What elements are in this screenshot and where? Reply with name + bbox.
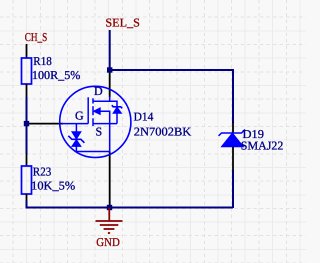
- resistor R23 body: [22, 166, 32, 194]
- svg-text:100R_5%: 100R_5%: [32, 68, 81, 82]
- svg-text:D: D: [94, 84, 103, 98]
- mosfet channel segment mid: [92, 106, 94, 115]
- svg-text:D14: D14: [134, 110, 154, 124]
- gate zener bar wings: [68, 136, 84, 143]
- wire D19 to bottom: [232, 170, 234, 208]
- resistor R18 pin bottom: [26, 84, 28, 98]
- gate zener stub top: [75, 124, 77, 132]
- diode D19 triangle: [221, 133, 243, 147]
- body diode anode lead: [116, 113, 118, 123]
- resistor R23 pin bottom: [26, 194, 28, 201]
- node A junction gate: [24, 121, 29, 126]
- mosfet bulk lead: [100, 111, 110, 123]
- diode D19 cathode bar: [219, 130, 245, 136]
- wire R23 bottom corner: [27, 201, 234, 208]
- svg-text:G: G: [75, 108, 84, 122]
- gate zener stub bottom: [76, 146, 109, 151]
- mosfet drain lead: [93, 96, 110, 101]
- diode D19 pin bottom: [232, 147, 234, 171]
- mosfet bulk arrow: [94, 108, 101, 115]
- gate zener triangle upper: [72, 132, 81, 139]
- mosfet source drop: [109, 124, 111, 152]
- node junction GND: [107, 205, 112, 210]
- svg-text:10K_5%: 10K_5%: [31, 179, 75, 193]
- svg-text:SEL_S: SEL_S: [105, 15, 139, 29]
- body diode triangle: [113, 107, 121, 113]
- body diode cathode bar: [112, 105, 122, 108]
- mosfet source lead: [93, 123, 117, 125]
- resistor R23 pin top: [26, 154, 28, 167]
- resistor R18 body: [22, 58, 32, 84]
- svg-text:GND: GND: [96, 235, 120, 249]
- svg-text:CH_S: CH_S: [25, 30, 48, 44]
- body diode cathode lead: [110, 101, 117, 107]
- mosfet channel segment top: [92, 98, 94, 103]
- mosfet channel segment bottom: [92, 118, 94, 126]
- svg-text:S: S: [96, 124, 103, 138]
- mosfet gate lead: [62, 123, 88, 125]
- gate zener triangle lower: [72, 140, 81, 147]
- svg-text:R18: R18: [33, 54, 52, 68]
- node junction SEL_S/drain: [107, 67, 112, 72]
- transistor Q D14 pin source: [109, 152, 111, 208]
- power port GND: [96, 208, 123, 234]
- transistor D14 body circle: [60, 86, 131, 157]
- mosfet gate bar: [87, 97, 89, 123]
- resistor R18 pin top: [26, 44, 28, 58]
- transistor Q D14 pin drain: [109, 70, 111, 97]
- svg-text:SMAJ22: SMAJ22: [241, 139, 283, 153]
- diode D19 pin top: [232, 122, 234, 133]
- wire SEL_S vertical: [109, 30, 111, 70]
- wire R18 to R23: [26, 97, 28, 154]
- svg-text:R23: R23: [33, 164, 52, 178]
- transistor Q D14 pin gate: [27, 123, 64, 125]
- wire top horizontal to D19: [110, 70, 233, 123]
- svg-text:2N7002BK: 2N7002BK: [134, 124, 192, 138]
